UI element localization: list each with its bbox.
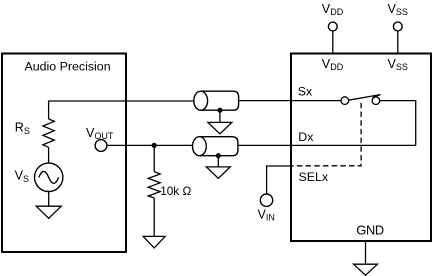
coax cable 2 <box>193 137 238 156</box>
svg-text:VDD: VDD <box>322 2 344 17</box>
wire switch output to Dx <box>380 101 416 146</box>
terminal VSS <box>393 22 402 31</box>
wire RS to VS <box>48 147 50 163</box>
terminal VDD <box>328 22 337 31</box>
svg-text:Audio Precision: Audio Precision <box>25 59 111 73</box>
svg-text:Sx: Sx <box>298 85 313 99</box>
coax cable 1 <box>194 91 239 110</box>
wire VS to ground <box>48 192 50 207</box>
junction dot (coax 2 shield) <box>216 153 221 158</box>
svg-text:VOUT: VOUT <box>86 126 114 141</box>
ground (VS) <box>36 206 61 218</box>
junction dot (coax 1 shield) <box>217 108 222 113</box>
junction dot (10k tap) <box>152 143 157 148</box>
wire coax 2 shield to ground <box>217 156 219 167</box>
svg-text:10k Ω: 10k Ω <box>160 184 191 198</box>
svg-text:VSS: VSS <box>388 2 408 17</box>
ground (U1 GND) <box>354 264 378 275</box>
resistor RS <box>43 119 54 147</box>
wire coax 1 to switch Sx <box>239 100 341 102</box>
source VS <box>35 163 63 191</box>
resistor R1 10k <box>148 172 160 198</box>
wire GND pin <box>365 242 367 265</box>
svg-text:VS: VS <box>15 169 29 184</box>
svg-text:VIN: VIN <box>258 208 275 223</box>
wire Dx net (coax 2 to switch output corner) <box>238 144 416 146</box>
ground (R1) <box>143 236 165 248</box>
wire SELx from VIN <box>267 166 292 194</box>
wire R1 to ground <box>153 198 155 237</box>
wire from RS top to coax 1 (Sx net) <box>49 101 194 119</box>
wire VSS pin <box>397 31 399 54</box>
svg-text:Dx: Dx <box>298 130 314 144</box>
control line SELx (dashed) <box>292 103 361 166</box>
terminal VIN <box>260 194 272 206</box>
terminal VOUT <box>95 140 107 152</box>
wire VOUT to coax 2 (Dx net) <box>107 144 193 146</box>
ground (coax 1) <box>208 122 232 133</box>
switch S1 <box>341 95 380 105</box>
svg-text:VSS: VSS <box>388 57 408 72</box>
ground (coax 2) <box>206 167 230 179</box>
svg-text:GND: GND <box>356 222 383 237</box>
box Audio Precision <box>2 54 126 253</box>
wire VDD pin <box>332 31 334 54</box>
svg-text:SELx: SELx <box>299 170 329 184</box>
wire coax 1 shield to ground <box>219 110 221 122</box>
wire junction to R1 <box>153 145 155 171</box>
svg-text:RS: RS <box>15 121 30 136</box>
box U1 (switch IC) <box>291 54 431 242</box>
svg-text:VDD: VDD <box>322 57 344 72</box>
